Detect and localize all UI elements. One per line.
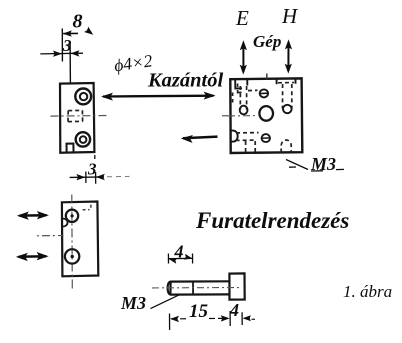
block B centre circle [259, 106, 273, 121]
block B bottom hidden rectangle [236, 133, 259, 141]
block C vertical centerline [71, 195, 74, 290]
svg-text:E: E [235, 6, 249, 30]
block C dashed corner mark [83, 205, 91, 210]
boiler arrow right head [204, 92, 216, 100]
bolt dim 4 line [169, 257, 192, 259]
block A centerline [51, 115, 109, 118]
block A hidden slot (dashed) [68, 110, 83, 121]
dim 3 (lower) arrowheads [76, 174, 85, 180]
bolt M3 leader [151, 295, 180, 309]
left-pointing arrow head [181, 134, 193, 143]
dim 15 line [171, 317, 228, 320]
M3 underline dashes [311, 169, 344, 171]
svg-text:15: 15 [189, 301, 209, 322]
block B bottom slot dashes [246, 141, 256, 152]
block B top-left step (solid) [235, 79, 247, 88]
block B right slot top notch [277, 79, 296, 84]
dim 4 (head) arrowhead [244, 317, 250, 319]
bolt thread boundary [192, 282, 194, 295]
extension line x70 down to block [69, 43, 71, 85]
centerline stub left of block B [222, 115, 232, 117]
block B top centre tick [266, 74, 268, 81]
block C top hole [66, 210, 78, 222]
dim 4 (head) tick [241, 312, 243, 325]
block A bottom hole outer [76, 132, 90, 146]
block B bottom-right hidden arch [281, 140, 291, 153]
block B right slot bottom oval [283, 105, 292, 113]
bolt centerline [152, 287, 242, 289]
dim 3 left arrowhead [53, 51, 62, 57]
svg-text:4: 4 [174, 242, 184, 262]
block A top hole inner [80, 93, 87, 100]
block C bottom hole [65, 249, 79, 263]
bolt head [229, 273, 244, 299]
svg-text:H: H [281, 4, 299, 28]
block A bottom-left notch [67, 144, 74, 152]
dim 3 (lower) ticks [86, 172, 96, 184]
boiler arrow left head [101, 93, 113, 101]
dim 3 (lower) faint extension [107, 175, 130, 177]
svg-text:M3: M3 [120, 293, 146, 313]
M3 leader (block B) [286, 160, 308, 170]
block A bottom hole inner [80, 136, 87, 143]
block B top theta hole [260, 89, 268, 97]
dim 8 free arrowhead [87, 30, 91, 34]
H double arrow [287, 42, 289, 71]
svg-text:1. ábra: 1. ábra [343, 282, 392, 301]
E double arrow [242, 43, 244, 72]
svg-text:Furatelrendezés: Furatelrendezés [195, 208, 349, 233]
block B dashes to theta hole [248, 89, 258, 91]
dim 8 line [63, 32, 78, 34]
block B bottom-left bump [231, 131, 238, 142]
block C outline [62, 202, 98, 277]
block A top hole outer [75, 89, 91, 105]
block C left edge notch [62, 219, 67, 227]
boiler double arrow line [103, 95, 214, 98]
block A outline [60, 83, 94, 153]
dim 15 ticks [170, 311, 231, 330]
block B right hidden slot [283, 84, 292, 109]
block B centreline [228, 115, 258, 117]
left-pointing arrow line [183, 137, 218, 139]
block B left hidden slot [240, 86, 246, 110]
extension tick above [94, 155, 96, 159]
dim 3 right arrowhead [70, 50, 79, 56]
block B outline [230, 78, 302, 153]
extension tick x62 [61, 29, 63, 62]
block B left slot bottom oval [240, 106, 248, 115]
dim 3 line [40, 52, 83, 55]
block C bottom double arrow [19, 255, 47, 258]
dim 8 left arrowhead [63, 30, 72, 36]
bolt shaft [168, 281, 230, 294]
bolt dim 4 arrowheads [168, 256, 178, 264]
dim 3 (lower) line [70, 176, 104, 179]
dim 15 arrowheads [170, 316, 179, 322]
bolt dim 4 (shank) ticks [168, 254, 192, 264]
svg-text:Kazántól: Kazántól [147, 70, 223, 92]
block B bottom theta hole [262, 134, 270, 142]
svg-text:8: 8 [73, 11, 83, 33]
block C top double arrow [20, 214, 47, 217]
svg-text:4: 4 [229, 300, 239, 320]
block C horizontal centerline [37, 235, 64, 237]
svg-text:Gép: Gép [253, 32, 281, 51]
block B top-left hidden dashes [233, 84, 245, 105]
